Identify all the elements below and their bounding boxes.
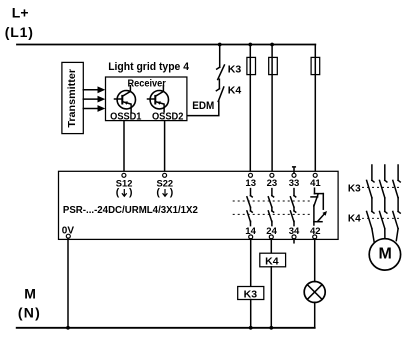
mechanical link dashed line 1: [233, 200, 312, 202]
wire coil K3 to rail: [250, 300, 252, 328]
light beam arrow 1: [83, 86, 105, 93]
internal contact 13-14: [247, 189, 252, 226]
svg-text:13: 13: [245, 178, 256, 189]
svg-text:OSSD1: OSSD1: [110, 111, 142, 122]
wire OSSD2 to S22: [164, 121, 166, 174]
contact K4 (NO, feedback loop): [216, 87, 223, 102]
svg-text:): ): [170, 186, 174, 198]
transmitter box: [62, 62, 83, 133]
svg-text:L+: L+: [12, 5, 29, 21]
svg-text:23: 23: [267, 178, 278, 189]
receiver box: [106, 77, 187, 121]
terminal 41: [313, 173, 317, 177]
internal NC contact 41-42: [311, 188, 327, 225]
motor M: [369, 239, 400, 270]
transistor OSSD2: [148, 86, 169, 112]
terminal 33 stub: [293, 167, 296, 173]
svg-text:M: M: [24, 286, 36, 302]
coil K4: [260, 253, 286, 267]
svg-text:41: 41: [310, 178, 321, 189]
svg-text:EDM: EDM: [192, 100, 214, 112]
terminal S22: [163, 173, 167, 177]
svg-text:K3: K3: [348, 183, 361, 194]
wire rail to contact K3: [219, 45, 221, 68]
svg-text:(L1): (L1): [5, 24, 34, 40]
terminal S12: [122, 173, 126, 177]
dashed link K3 power contacts: [362, 186, 400, 188]
svg-text:Transmitter: Transmitter: [67, 69, 78, 128]
wire lamp to rail: [314, 302, 316, 328]
wire 42 to lamp: [314, 239, 316, 282]
phase L2 contacts K3/K4: [380, 165, 387, 239]
svg-text:33: 33: [289, 178, 300, 189]
contact K3 (NO, feedback loop): [217, 65, 225, 80]
svg-text:(: (: [116, 186, 120, 198]
internal contact 23-24: [268, 189, 273, 226]
coil K3: [238, 287, 264, 300]
svg-text:Receiver: Receiver: [128, 79, 166, 90]
internal contact 33-34: [290, 189, 295, 226]
terminal 23: [270, 173, 274, 177]
wire 0V to neutral rail: [67, 238, 69, 328]
stub terminal 34: [293, 239, 295, 243]
wire rail to fuse F1 and terminal 13: [249, 45, 251, 174]
wire K4 to EDM input: [187, 101, 219, 115]
svg-text:M: M: [379, 246, 392, 263]
transistor OSSD1: [115, 86, 136, 112]
phase L1 contacts K3/K4: [367, 165, 375, 242]
svg-text:K3: K3: [228, 64, 242, 76]
wire 24 to coil K4: [270, 239, 272, 253]
svg-text:Light grid type 4: Light grid type 4: [108, 61, 189, 73]
lamp indicator: [304, 282, 325, 303]
junction 0V on rail: [66, 326, 70, 330]
wire coil K4 to rail: [270, 267, 272, 328]
junction on rail at fuse F2 branch: [270, 43, 274, 47]
label S12 arrow: [116, 186, 133, 198]
dashed link K4 power contacts: [362, 217, 400, 219]
phase L3 contacts K3/K4: [393, 165, 400, 241]
fuse F2: [269, 57, 278, 74]
fuse F3: [311, 57, 320, 74]
svg-text:K3: K3: [244, 289, 258, 301]
light beam arrow 2: [83, 96, 105, 103]
wire top supply rail L+: [17, 44, 315, 46]
label S22 arrow: [156, 186, 173, 198]
wire bottom neutral rail: [17, 327, 315, 329]
svg-text:K4: K4: [228, 85, 242, 97]
light beam arrow 3: [83, 105, 105, 112]
safety relay box PSR: [59, 171, 339, 239]
fuse F1: [247, 57, 256, 74]
wire K3 to K4: [218, 79, 220, 89]
svg-text:K4: K4: [348, 214, 361, 225]
svg-text:(: (: [156, 186, 160, 198]
wire 14 to coil K3: [250, 239, 252, 287]
junction 24 on rail: [269, 326, 273, 330]
junction 14 on rail: [249, 326, 253, 330]
terminal 0V: [66, 234, 70, 238]
terminal 13: [249, 173, 253, 177]
wire rail to fuse F2 and terminal 23: [271, 45, 273, 174]
junction on rail at K3/K4 branch: [218, 43, 222, 47]
wire rail end to fuse F3 and terminal 41: [314, 45, 316, 174]
svg-text:K4: K4: [265, 255, 279, 267]
junction on rail at fuse F1 branch: [248, 43, 252, 47]
svg-text:PSR-...-24DC/URML4/3X1/1X2: PSR-...-24DC/URML4/3X1/1X2: [63, 205, 198, 216]
mechanical link dashed line 2: [233, 213, 312, 215]
svg-text:): ): [129, 186, 133, 198]
svg-text:(N): (N): [18, 305, 41, 321]
wire OSSD1 to S12: [123, 121, 125, 174]
svg-text:OSSD2: OSSD2: [152, 111, 184, 122]
